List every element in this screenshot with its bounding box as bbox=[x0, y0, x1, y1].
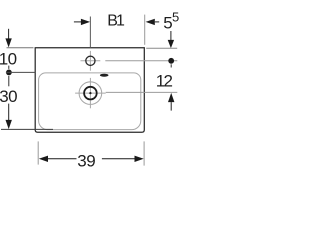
svg-text:B1: B1 bbox=[107, 13, 125, 30]
dimension 12 up arrow bbox=[168, 93, 174, 102]
svg-text:5: 5 bbox=[172, 9, 179, 24]
svg-text:12: 12 bbox=[156, 71, 173, 90]
bottom-left tick line bbox=[1, 128, 53, 130]
svg-text:30: 30 bbox=[0, 87, 17, 106]
drain crosshair bbox=[75, 92, 106, 94]
inner basin bowl bbox=[39, 73, 141, 130]
tap axis vertical extension bbox=[89, 17, 91, 48]
washbasin outer outline bbox=[35, 48, 144, 132]
svg-text:39: 39 bbox=[77, 152, 95, 171]
bottom extension line right bbox=[143, 141, 145, 165]
node dot left bbox=[6, 70, 12, 76]
dimension 30 bottom arrow bbox=[8, 104, 10, 121]
bottom extension line left bbox=[37, 141, 39, 164]
overflow slot bbox=[100, 74, 109, 77]
drain ring bbox=[84, 87, 97, 100]
drain center dot bbox=[89, 92, 91, 94]
node dot right bbox=[168, 58, 174, 64]
left dot reference line bbox=[6, 71, 35, 73]
right edge vertical extension bbox=[144, 15, 146, 45]
dimension 39 right arrow bbox=[102, 158, 135, 160]
drain axis line right bbox=[106, 91, 178, 93]
top-right tick line bbox=[146, 47, 177, 49]
tap hole crosshair bbox=[81, 60, 101, 62]
tap axis line right bbox=[105, 60, 177, 62]
dimension B1 left arrow bbox=[74, 21, 81, 23]
drain outer circle bbox=[79, 82, 102, 105]
tap hole bbox=[86, 56, 95, 65]
dimension 5.5 down arrow bbox=[170, 31, 172, 40]
dimension 30 line upper bbox=[8, 76, 10, 86]
top-left tick line bbox=[7, 47, 34, 49]
dimension 10 top arrow bbox=[8, 29, 10, 39]
dimension 39 left arrow bbox=[39, 156, 48, 162]
dimension 5.5 left-pointing arrow bbox=[146, 19, 155, 25]
